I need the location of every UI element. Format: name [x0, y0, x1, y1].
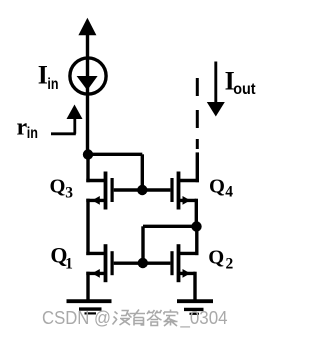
svg-text:out: out: [233, 81, 256, 98]
I_out arrow: [207, 62, 225, 117]
wire: Q1 source horizontal: [86, 272, 105, 275]
wire: Q4 source node left horizontal: [143, 225, 197, 228]
wire: Q3 drain horizontal: [86, 179, 105, 182]
current source I_in: [70, 58, 106, 94]
svg-text:in: in: [47, 76, 58, 93]
ground (Q1 source): [67, 301, 112, 313]
wire: Q4 source horizontal: [178, 199, 196, 202]
transistor Q3: [92, 172, 114, 210]
node: input node dot: [83, 149, 93, 159]
label Q1: [50, 242, 72, 272]
wire: input branch vertical through current source: [86, 32, 89, 155]
wire: drop to top gate rail: [141, 154, 144, 190]
有: [130, 310, 146, 326]
label r_in: [17, 115, 39, 143]
wire: Q1 source down to ground: [86, 272, 89, 301]
transistor Q4: [170, 172, 190, 210]
watermark CSDN @没有答案_0304: [42, 308, 228, 329]
svg-text:_0304: _0304: [180, 308, 228, 329]
wire: node to Q2 drain vertical: [195, 227, 198, 256]
svg-text:Q: Q: [50, 176, 66, 198]
wire: Q2 source horizontal: [178, 272, 195, 275]
ground (Q2 source): [177, 301, 213, 314]
wire: Q1 drain horizontal: [86, 252, 105, 255]
svg-text:3: 3: [65, 184, 73, 201]
label I_in: [38, 60, 59, 93]
svg-text:1: 1: [65, 256, 73, 273]
wire: Q2 drain horizontal: [178, 252, 199, 255]
案: [164, 310, 178, 327]
svg-text:CSDN @: CSDN @: [42, 308, 111, 328]
label Q2: [208, 246, 233, 272]
svg-text:in: in: [27, 125, 38, 142]
wire: drop to bottom gate rail: [141, 226, 144, 263]
label I_out: [225, 67, 257, 99]
svg-text:2: 2: [226, 256, 234, 273]
wire: Q2 source down to ground: [193, 272, 196, 301]
label Q3: [50, 176, 74, 202]
svg-text:Q: Q: [208, 246, 224, 268]
transistor Q2: [170, 244, 190, 282]
input arrow (up): [78, 18, 96, 35]
没: [113, 311, 132, 326]
wire: Q4 source down to node: [195, 199, 198, 228]
transistor Q1: [92, 244, 114, 282]
wire: Q3 source down to Q1 drain: [86, 199, 89, 255]
node: top gate rail dot: [137, 185, 147, 195]
wire: top gate rail Q3-Q4: [114, 188, 171, 191]
wire: Q3 drain vertical from input node: [86, 155, 89, 183]
wire: bottom gate rail Q1-Q2: [114, 262, 171, 265]
node: bottom gate rail dot: [138, 258, 148, 268]
wire: Q4 drain horizontal: [178, 179, 199, 182]
wire: Q3 source horizontal: [86, 199, 105, 202]
wire: input node to gate rail horizontal: [88, 153, 142, 156]
wire: Q4 drain vertical up: [196, 152, 199, 182]
label Q4: [209, 175, 233, 200]
dashed output line: [196, 78, 199, 149]
svg-text:Q: Q: [209, 175, 225, 197]
svg-text:4: 4: [225, 184, 233, 201]
r_in arrow: [51, 105, 83, 134]
答: [147, 310, 162, 326]
node: Q4 source node dot: [191, 221, 201, 231]
